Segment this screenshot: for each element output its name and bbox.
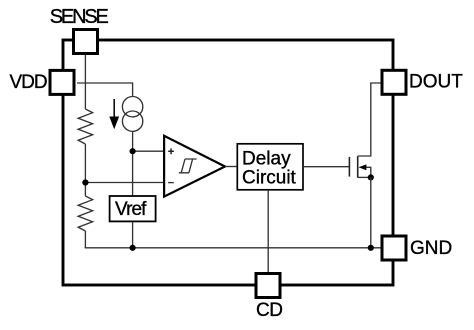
svg-text:CD: CD (256, 300, 282, 321)
svg-text:Vref: Vref (115, 199, 147, 220)
node source junction dot (368, 174, 374, 180)
plus input sign (168, 148, 174, 154)
pin SENSE box (74, 30, 98, 54)
transistor Q1 gate bar (348, 157, 350, 177)
IC boundary rectangle (63, 40, 393, 285)
wire R2 bottom to ground rail (84, 231, 86, 248)
svg-text:DOUT: DOUT (409, 72, 463, 93)
wire R1 bottom to divider node (84, 144, 86, 196)
Vref box (110, 196, 156, 221)
wire divider node to comparator minus (85, 182, 163, 184)
current direction arrow (113, 99, 115, 119)
svg-text:VDD: VDD (10, 72, 47, 93)
resistor R1 (upper) (78, 109, 92, 144)
wire plus node to comparator (133, 150, 164, 152)
node Vref bottom junction dot (130, 245, 136, 251)
op-amp comparator U1 (164, 136, 225, 197)
body arrowhead (359, 164, 367, 170)
svg-text:Circuit: Circuit (242, 168, 297, 189)
node divider junction dot (82, 179, 88, 185)
wire comparator output to delay circuit (225, 166, 238, 168)
svg-text:GND: GND (410, 238, 452, 259)
current source I1 (122, 97, 142, 132)
wire Vref vertical (132, 151, 134, 248)
node source rail junction dot (368, 245, 374, 251)
wire current source to comparator plus node (132, 131, 134, 151)
wire source to ground rail (370, 177, 372, 247)
transistor Q1 channel bar (357, 156, 359, 177)
svg-text:SENSE: SENSE (50, 6, 109, 28)
wire delay circuit to transistor gate (303, 166, 349, 168)
pin VDD box (50, 70, 74, 94)
pin GND box (382, 236, 406, 260)
Delay Circuit box (237, 144, 303, 190)
wire ground rail to GND pin (85, 247, 381, 249)
minus input sign (168, 182, 174, 184)
pin CD box (256, 274, 280, 298)
wire VDD pin to current source top (77, 83, 133, 97)
wire SENSE pin to resistor divider top (84, 55, 86, 110)
wire delay circuit to CD pin (267, 190, 269, 273)
svg-text:Delay: Delay (242, 148, 291, 169)
wire body arrow to source (366, 167, 371, 177)
wire drain to DOUT pin (358, 83, 381, 156)
wire source horizontal (358, 176, 371, 178)
node plus junction dot (130, 148, 136, 154)
resistor R2 (lower) (78, 196, 92, 231)
hysteresis symbol (179, 159, 197, 173)
pin DOUT box (382, 70, 406, 94)
